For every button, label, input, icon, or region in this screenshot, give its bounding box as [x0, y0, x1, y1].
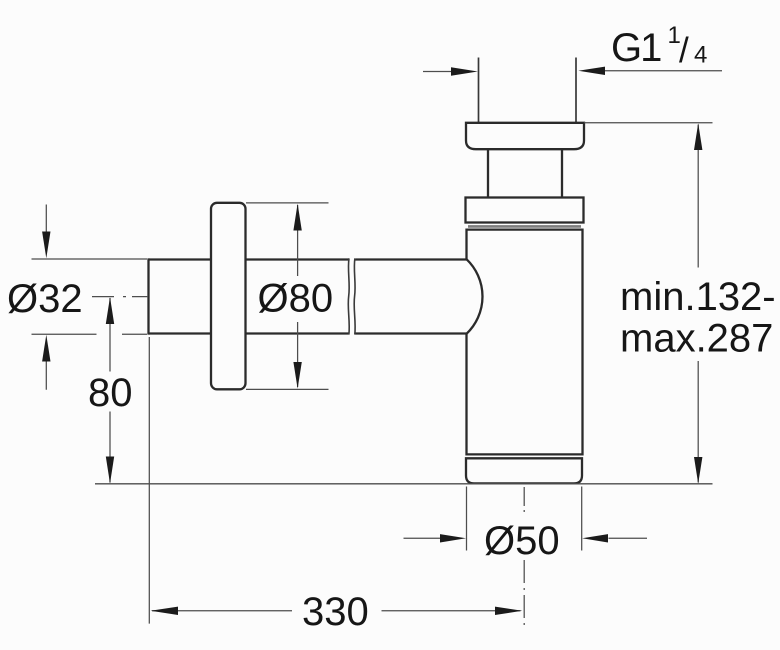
diameter 50 right arrowhead — [582, 534, 608, 542]
330 right arrowhead — [495, 607, 522, 615]
svg-text:min.132-: min.132- — [620, 275, 776, 319]
inlet pipe top wall — [149, 258, 467, 260]
diameter 50 leaders — [404, 537, 648, 539]
svg-text:330: 330 — [302, 590, 369, 634]
diameter 80 bottom arrowhead — [293, 362, 301, 389]
inlet pipe bottom wall — [149, 332, 467, 334]
330 dimension line — [152, 610, 521, 612]
diameter 80 dimension line — [297, 205, 299, 387]
wall baseline — [95, 483, 713, 485]
G1 dimension right leader — [605, 70, 723, 72]
trap body — [467, 230, 583, 455]
svg-text:Ø80: Ø80 — [258, 277, 334, 321]
diameter 32 bottom arrowhead — [42, 335, 50, 362]
svg-text:4: 4 — [694, 42, 707, 69]
bottom center line lower — [523, 560, 525, 625]
svg-text:max.287: max.287 — [620, 317, 773, 361]
tailpipe wall left — [478, 58, 480, 123]
flange top extension line — [584, 122, 713, 124]
80 top arrowhead — [106, 297, 114, 324]
diameter 80 extension lines — [246, 203, 329, 390]
diameter 32 top arrowhead — [42, 232, 50, 259]
diameter 32 arrow shafts — [45, 205, 47, 390]
gasket — [468, 225, 581, 228]
pipe break line left — [348, 258, 349, 334]
diameter 80 top arrowhead — [293, 204, 301, 231]
G1 left arrowhead — [451, 67, 478, 75]
trap top flange — [466, 123, 584, 149]
height dimension line — [697, 125, 699, 483]
wall flange — [211, 203, 246, 389]
svg-text:G1: G1 — [611, 26, 661, 70]
inlet pipe end cap — [147, 258, 149, 334]
diameter 50 left arrowhead — [440, 534, 466, 542]
bottom center line upper — [523, 487, 525, 517]
svg-text:Ø50: Ø50 — [484, 519, 560, 563]
diameter 32 bottom extension line — [32, 333, 148, 335]
svg-text:Ø32: Ø32 — [7, 277, 83, 321]
G1 right arrowhead — [578, 67, 605, 75]
80 dimension line — [109, 298, 111, 483]
svg-text:/: / — [679, 31, 689, 70]
330 left arrowhead — [151, 607, 179, 615]
80 bottom arrowhead — [106, 457, 114, 484]
pipe break line right — [354, 258, 355, 334]
diameter 50 extension lines — [467, 487, 582, 551]
tailpipe wall right — [575, 58, 577, 123]
trap neck — [488, 149, 562, 197]
height dimension top arrowhead — [694, 123, 702, 150]
bottom ring — [466, 458, 582, 483]
inlet bulge arc — [467, 259, 483, 334]
pipe center line — [92, 296, 148, 298]
height dimension bottom arrowhead — [694, 457, 702, 484]
diameter 32 top extension line — [32, 258, 148, 260]
union nut — [466, 198, 584, 223]
G1 dimension left leader — [423, 71, 452, 73]
330 extension line — [148, 337, 150, 624]
svg-text:80: 80 — [88, 371, 133, 415]
